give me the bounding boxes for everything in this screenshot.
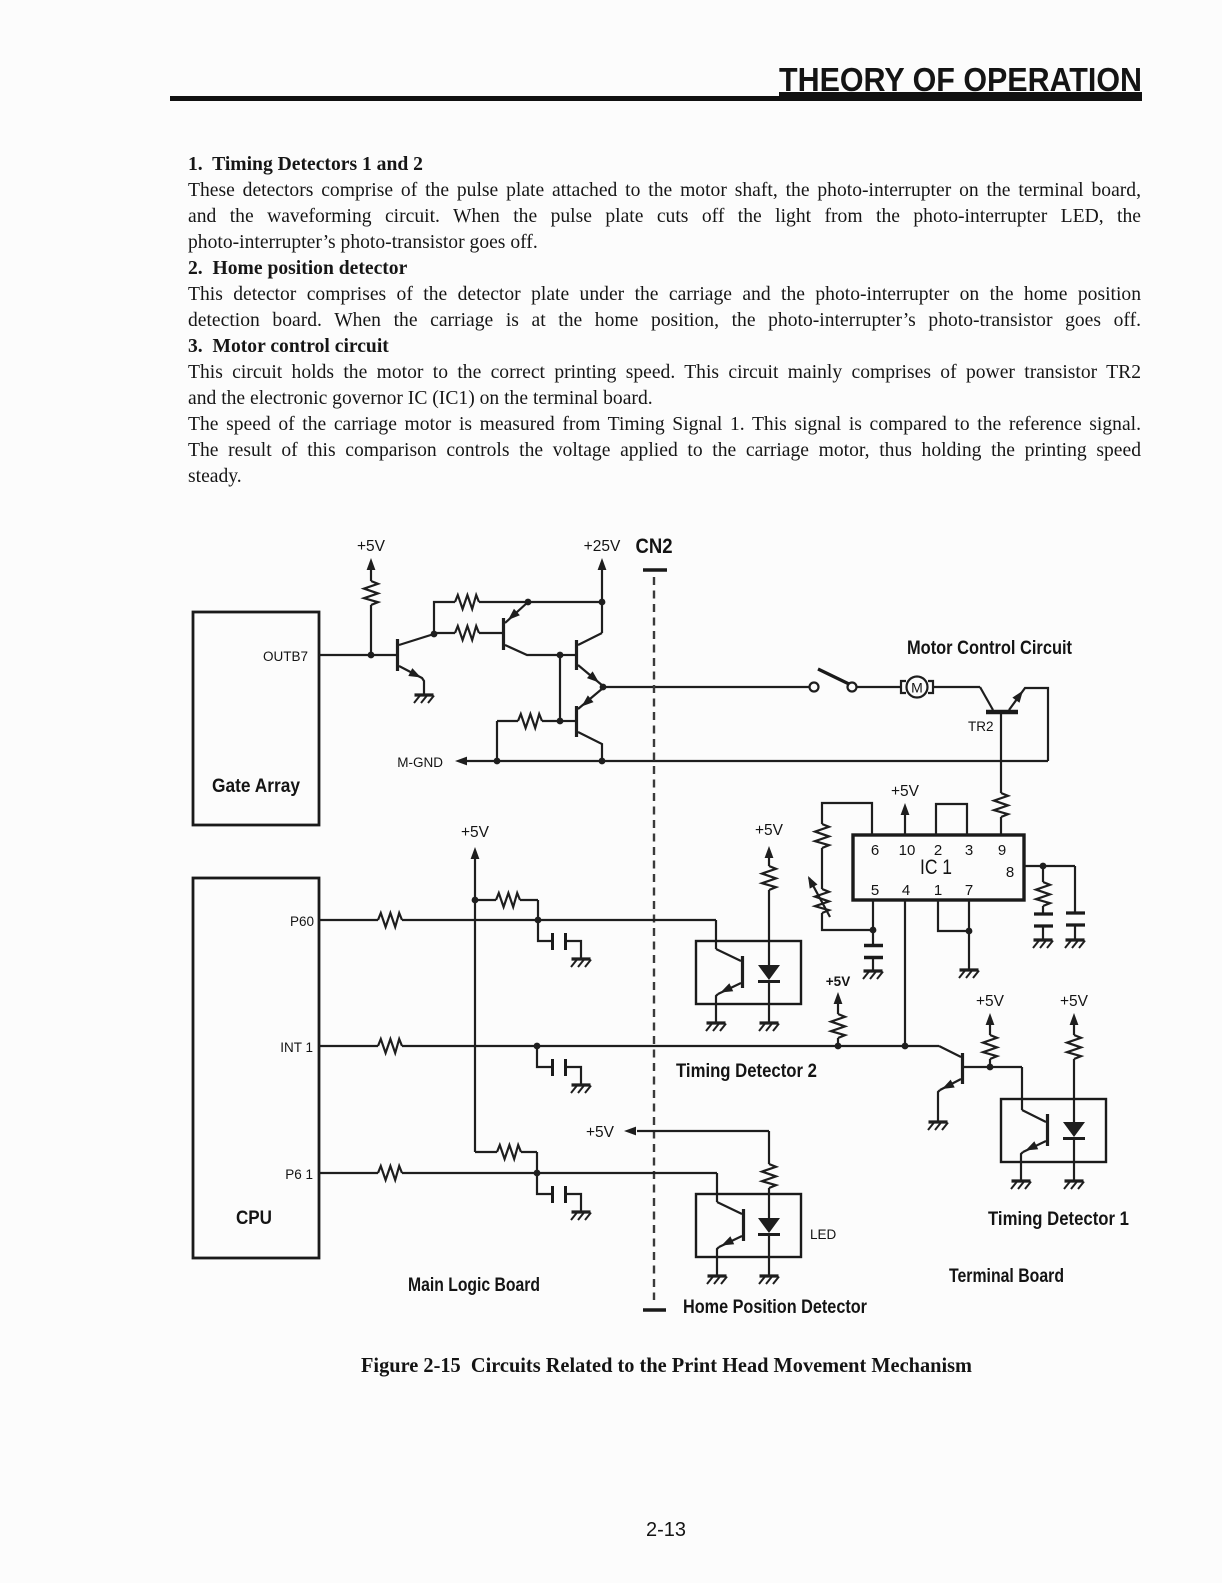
- svg-text:2: 2: [934, 842, 942, 859]
- capacitor C1 (pin 5): [864, 930, 883, 970]
- junction INT1 / C5: [534, 1043, 541, 1050]
- power +5V arrow (TD1 pull-up): [986, 1013, 995, 1035]
- wire HPD LED cathode to ground: [768, 1235, 770, 1275]
- junction pin5/VR1: [870, 927, 877, 934]
- svg-text:INT 1: INT 1: [280, 1040, 313, 1055]
- node A (Q1 collector): [431, 631, 438, 638]
- wire pin 8 right: [1024, 865, 1075, 867]
- resistor R2 (feedback, top): [455, 595, 479, 609]
- wire +5V feed to HPD LED resistor: [637, 1131, 769, 1164]
- svg-text:LED: LED: [810, 1227, 837, 1242]
- resistor R14 (HPD LED): [762, 1164, 776, 1188]
- svg-text:+5V: +5V: [976, 993, 1005, 1010]
- junction M-GND / Q4 collector: [599, 758, 606, 765]
- svg-text:4: 4: [902, 882, 910, 899]
- resistor R15 (TD1 pull-up): [983, 1035, 997, 1059]
- svg-text:Main Logic Board: Main Logic Board: [408, 1275, 540, 1296]
- photo-transistor (TD2): [716, 949, 743, 1022]
- junction pin 8 network: [1040, 863, 1047, 870]
- wire R14 into HPD box: [768, 1188, 770, 1218]
- power +5V arrow (main logic): [471, 847, 480, 1152]
- power +5V arrow (TD1 LED): [1070, 1013, 1079, 1035]
- op-amp/governor IC1 box: [853, 835, 1024, 900]
- wire +25V rail down to Q3 collector: [601, 602, 603, 633]
- resistor R16 (TD1 LED): [1067, 1035, 1081, 1059]
- wire pin 5: [872, 900, 874, 930]
- transistor Q1: [398, 634, 435, 694]
- ground (C3): [1065, 940, 1085, 948]
- photo-interrupter box Timing Detector 2: [696, 941, 801, 1004]
- ground (TD1 photo-transistor): [1011, 1181, 1031, 1189]
- wire VR1 to pin 5 junction: [822, 913, 873, 930]
- svg-text:+5V: +5V: [826, 974, 850, 989]
- svg-text:+5V: +5V: [586, 1124, 615, 1141]
- ground (HPD LED): [759, 1276, 779, 1284]
- svg-text:Timing Detector 2: Timing Detector 2: [676, 1061, 817, 1082]
- junction P61 / C6: [534, 1170, 541, 1177]
- wire R6 to VR1: [821, 848, 823, 889]
- wire M-GND bus: [467, 760, 1048, 762]
- wire R15 to Q5 base: [989, 1059, 991, 1067]
- LED (TD1): [1063, 1122, 1085, 1139]
- ground (TD1 LED): [1064, 1181, 1084, 1189]
- svg-text:3: 3: [965, 842, 973, 859]
- title: THEORY OF OPERATION: [170, 61, 1142, 101]
- ground (C2): [1033, 940, 1053, 948]
- wire TD1 LED cathode to ground: [1073, 1139, 1075, 1180]
- resistor R6 (pin 6 network): [815, 824, 829, 848]
- svg-text:Gate Array: Gate Array: [212, 776, 300, 797]
- ground (Q5 emitter): [928, 1122, 948, 1130]
- svg-text:6: 6: [871, 842, 879, 859]
- capacitor C6 (P61): [537, 1173, 581, 1211]
- wire driver output to switch: [603, 686, 809, 688]
- wire R17 to INT1: [837, 1038, 839, 1046]
- resistor R17 (INT1 pull-up): [831, 1014, 845, 1038]
- svg-text:10: 10: [899, 842, 916, 859]
- resistor R13 (TD2 LED): [762, 866, 776, 890]
- node junction on OUTB7: [368, 652, 375, 659]
- wire R16 into TD1 box: [1073, 1059, 1075, 1122]
- switch SW1: [810, 669, 857, 692]
- svg-text:TR2: TR2: [968, 719, 994, 734]
- LED (HPD): [758, 1218, 780, 1235]
- svg-text:7: 7: [965, 882, 973, 899]
- svg-text:P6 1: P6 1: [285, 1167, 313, 1182]
- photo-transistor (TD1): [1021, 1110, 1048, 1180]
- ground (C1): [863, 971, 883, 979]
- resistor R8 (P60 pull-up): [475, 893, 538, 920]
- ground (Q1 emitter): [414, 695, 434, 703]
- ground (C5): [571, 1085, 591, 1093]
- wire TR2 base down to R5: [1000, 714, 1002, 793]
- junction pin4 / INT1: [902, 1043, 909, 1050]
- wire pin 4 down to INT1 line: [904, 900, 906, 1046]
- svg-text:M: M: [911, 680, 923, 696]
- svg-text:1: 1: [934, 882, 942, 899]
- ground (TD2 LED): [759, 1023, 779, 1031]
- wire P61 to Home Position Detector: [402, 1173, 717, 1202]
- power +5V arrow (TD2 LED): [765, 846, 774, 866]
- capacitor C5 (INT1): [537, 1046, 581, 1084]
- resistor R11 (P61 series): [378, 1166, 402, 1180]
- svg-text:CPU: CPU: [236, 1208, 272, 1229]
- resistor R3 (Q2 base): [455, 626, 479, 640]
- wire OUTB7 from Gate Array to Q1 base: [319, 654, 396, 656]
- LED (TD2): [758, 965, 780, 982]
- connector CN2 bottom tick: [643, 1308, 666, 1311]
- svg-text:M-GND: M-GND: [397, 755, 443, 770]
- node B (Q2 emitter junction): [525, 599, 532, 606]
- ground (C6): [571, 1212, 591, 1220]
- wire R4 to M-GND: [497, 721, 560, 761]
- power +5V arrow (HPD feed, pointing left): [624, 1127, 636, 1136]
- variable resistor VR1: [804, 874, 830, 917]
- junction pins 1-7: [966, 928, 973, 935]
- svg-text:Motor Control Circuit: Motor Control Circuit: [907, 638, 1073, 659]
- wire motor to TR2 collector: [933, 686, 980, 688]
- wire P60 to Timing Detector 2: [402, 920, 716, 949]
- svg-text:IC 1: IC 1: [920, 856, 952, 879]
- wire P60 from CPU: [319, 919, 378, 921]
- svg-text:8: 8: [1006, 864, 1014, 881]
- power +25V arrow: [598, 558, 607, 602]
- ground (HPD photo-transistor): [707, 1276, 727, 1284]
- junction M-GND / R4: [494, 758, 501, 765]
- IC box CPU: [193, 878, 319, 1258]
- svg-text:Home Position Detector: Home Position Detector: [683, 1297, 868, 1318]
- resistor R5 (TR2 base to IC1 pin 9): [994, 793, 1008, 817]
- power +5V arrow into pin 10: [901, 803, 910, 835]
- junction Q5 base / R15: [987, 1064, 994, 1071]
- junction R17 / INT1: [835, 1043, 842, 1050]
- transistor Q2 (PNP): [504, 602, 561, 655]
- svg-text:P60: P60: [290, 914, 314, 929]
- photo-interrupter box Home Position Detector: [696, 1194, 801, 1257]
- ground (C4): [571, 959, 591, 967]
- wire pins 2-3 loop: [936, 804, 967, 835]
- wire R5 to IC1 pin 9: [1000, 817, 1002, 835]
- transistor Q5 (waveforming): [938, 1046, 963, 1121]
- resistor R9 (P60 series): [378, 913, 402, 927]
- svg-text:5: 5: [871, 882, 879, 899]
- wire R3 to Q2 base: [434, 632, 502, 634]
- resistor R1 (pull-up on OUTB7): [364, 581, 378, 605]
- photo-interrupter box Timing Detector 1: [1001, 1099, 1106, 1162]
- svg-text:+5V: +5V: [891, 783, 920, 800]
- capacitor C2: [1034, 906, 1053, 939]
- transistor Q3: [560, 633, 603, 686]
- M-GND arrow: [455, 757, 467, 766]
- svg-text:2-13: 2-13: [646, 1519, 686, 1541]
- photo-transistor (HPD): [717, 1202, 744, 1275]
- IC box Gate Array: [193, 612, 319, 825]
- svg-text:Figure 2-15 Circuits Related: Figure 2-15 Circuits Related to the Prin…: [361, 1353, 972, 1377]
- capacitor C3: [1066, 866, 1085, 939]
- wire node C to Q4 base junction: [559, 655, 561, 721]
- wire R1 to OUTB7 node: [370, 605, 372, 655]
- wire LED cathode to ground: [768, 982, 770, 1022]
- svg-text:+25V: +25V: [584, 538, 621, 555]
- transistor Q4 (PNP): [560, 688, 603, 761]
- connector CN2 top tick: [643, 568, 667, 571]
- svg-text:+5V: +5V: [461, 824, 490, 841]
- wire pins 1-7: [938, 900, 969, 969]
- svg-text:OUTB7: OUTB7: [263, 649, 308, 664]
- junction +5V / R8: [472, 897, 479, 904]
- ground (pin 7): [959, 970, 979, 978]
- wire P61 from CPU: [319, 1172, 378, 1174]
- resistor R10 (INT1 series): [378, 1039, 402, 1053]
- wire R2 to node B: [479, 601, 602, 603]
- motor M: [901, 677, 933, 698]
- power +5V arrow: [367, 558, 376, 581]
- svg-text:Terminal Board: Terminal Board: [949, 1266, 1064, 1287]
- svg-text:9: 9: [998, 842, 1006, 859]
- wire INT1 to Q5 collector: [402, 1045, 939, 1047]
- ground (TD2 photo-transistor): [706, 1023, 726, 1031]
- resistor R4 (Q4 base): [518, 714, 542, 728]
- node D (+25V rail / R2): [599, 599, 606, 606]
- svg-text:+5V: +5V: [1060, 993, 1089, 1010]
- svg-text:Timing Detector 1: Timing Detector 1: [988, 1209, 1129, 1230]
- wire switch to motor: [857, 686, 902, 688]
- connector CN2 dashed boundary line: [653, 577, 655, 1300]
- wire R13 into TD2 box: [768, 890, 770, 965]
- wire Q5 base to TD1: [963, 1067, 1022, 1110]
- capacitor C4 (P60): [538, 920, 581, 958]
- node F (Q4 base): [557, 718, 564, 725]
- wire pin 6 loop up-left: [822, 803, 872, 835]
- transistor TR2: [968, 687, 1048, 761]
- node E (driver output): [600, 684, 607, 691]
- node C (Q3 base junction): [557, 652, 564, 659]
- junction P60 / C4: [535, 917, 542, 924]
- resistor R12 (P61 pull-up): [475, 1145, 537, 1173]
- svg-text:+5V: +5V: [755, 822, 784, 839]
- wire INT1 from CPU: [319, 1045, 378, 1047]
- wire node A up to R2: [434, 602, 455, 634]
- svg-text:CN2: CN2: [636, 535, 673, 558]
- power +5V arrow (INT1 pull-up): [834, 992, 843, 1014]
- svg-text:+5V: +5V: [357, 538, 386, 555]
- resistor R7 (pin 8): [1036, 866, 1050, 906]
